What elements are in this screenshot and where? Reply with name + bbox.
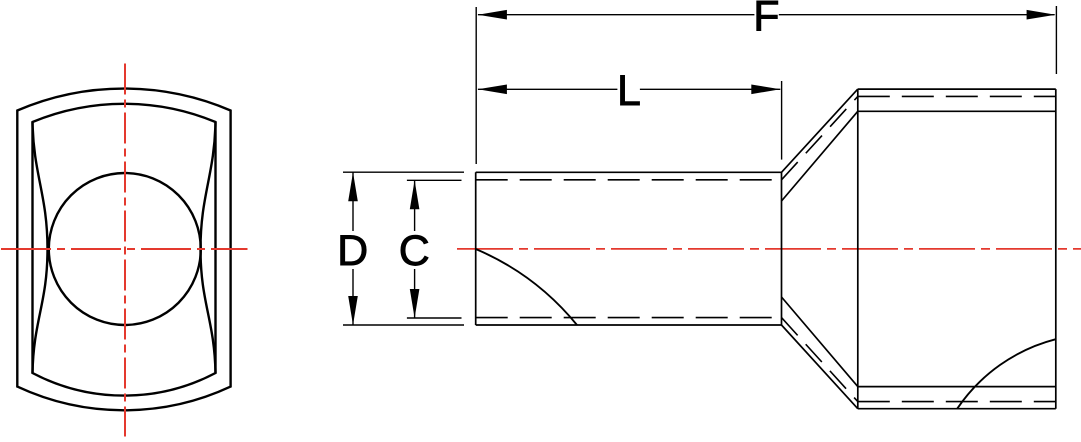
side view: collar bottom outer	[858, 408, 1056, 410]
dimension L: line right part	[640, 88, 780, 90]
side view: barrel left edge	[475, 172, 477, 325]
dimension L: left arrow	[478, 85, 507, 95]
dimension C: bottom arrow	[410, 289, 420, 318]
front view: wire barrel circle	[49, 173, 201, 325]
side view: collar hidden bottom	[858, 401, 1056, 403]
dimension F: line right part	[779, 14, 1055, 16]
dimension C: extension line bottom	[407, 317, 462, 319]
front view: outer collar outline	[17, 89, 230, 411]
front view: left concave cone edge	[33, 122, 48, 373]
dimension F: left arrow	[478, 10, 507, 20]
dimension C: line top part	[414, 180, 416, 231]
side view: collar arc	[957, 339, 1056, 409]
dimension C: line bottom part	[414, 269, 416, 318]
side view: horizontal centerline	[457, 248, 1081, 250]
dimension D: line bottom part	[352, 269, 354, 325]
side view: collar bottom inner	[858, 386, 1056, 388]
side view: barrel right edge	[781, 172, 783, 325]
side view: cone outer top	[782, 89, 858, 172]
svg-text:C: C	[399, 227, 430, 275]
dimension D: extension line bottom	[343, 324, 464, 326]
dimension D: line top part	[352, 172, 354, 231]
dimension D: top arrow	[348, 172, 358, 201]
dimension F: extension line right	[1055, 6, 1057, 74]
dimension F: extension line left	[475, 7, 477, 164]
svg-text:D: D	[337, 227, 368, 275]
dimension D: bottom arrow	[348, 296, 358, 325]
dimension L: line left part	[478, 88, 618, 90]
side view: barrel crimp arc	[476, 249, 577, 325]
side view: cone hidden top	[782, 96, 858, 179]
side view: barrel hidden bore top	[476, 179, 782, 181]
side view: collar hidden top	[858, 95, 1056, 97]
side view: barrel hidden bore bottom	[476, 317, 782, 319]
side view: cone outer bottom	[782, 325, 858, 409]
front view: right concave cone edge	[201, 122, 216, 373]
side view: barrel top outer line	[476, 171, 782, 173]
svg-text:L: L	[617, 67, 641, 115]
dimension C: extension line top	[407, 179, 462, 181]
dimension F: line left part	[478, 14, 755, 16]
side view: collar right edge	[1055, 89, 1057, 409]
side view: collar top outer	[858, 88, 1056, 90]
dimension D: extension line top	[343, 171, 464, 173]
dimension L: right arrow	[751, 85, 780, 95]
side view: barrel bottom outer line	[476, 324, 782, 326]
dimension C: top arrow	[410, 180, 420, 209]
side view: collar top inner	[858, 110, 1056, 112]
front view: horizontal centerline	[1, 248, 248, 250]
dimension F: right arrow	[1027, 10, 1056, 20]
dimension L: extension line right	[781, 81, 783, 160]
front view: vertical centerline	[124, 64, 126, 437]
front view: inner funnel opening outline	[33, 104, 216, 396]
side view: cone inner top	[782, 111, 858, 201]
side view: cone hidden bottom	[782, 318, 858, 402]
side view: cone inner bottom	[782, 297, 858, 387]
side view: collar left edge	[857, 89, 859, 409]
svg-text:F: F	[753, 0, 779, 41]
